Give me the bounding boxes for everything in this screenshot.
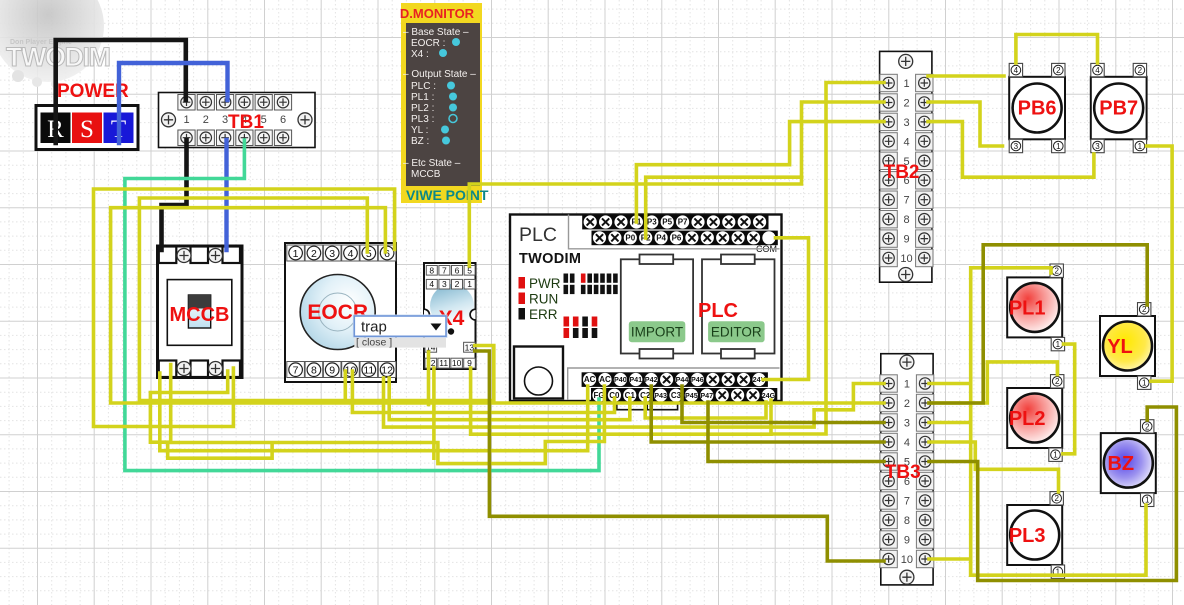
wire EOCR-6-to-TB3-L2 yellow bbox=[111, 208, 884, 403]
svg-text:8: 8 bbox=[311, 365, 317, 377]
svg-text:MCCB: MCCB bbox=[170, 304, 230, 326]
svg-text:PB6: PB6 bbox=[1018, 98, 1057, 120]
svg-text:PL3 :: PL3 : bbox=[411, 114, 434, 125]
wire TB3-R10-to-BZ-1 yellow bbox=[929, 505, 1146, 575]
svg-text:7: 7 bbox=[293, 365, 299, 377]
wire PB6-4-to-PB7-4 yellow bbox=[1016, 35, 1098, 64]
terminal block TB1 bbox=[159, 93, 316, 148]
svg-text:12: 12 bbox=[381, 365, 393, 377]
svg-text:7: 7 bbox=[442, 265, 447, 275]
wire MCCB-to-EOCR-case yellow bbox=[94, 189, 395, 427]
pilot lamp PL2 bbox=[1007, 375, 1064, 462]
dropdown overlay trap bbox=[353, 315, 448, 349]
svg-text:10: 10 bbox=[900, 253, 912, 265]
svg-text:P45: P45 bbox=[685, 391, 698, 400]
svg-text:2: 2 bbox=[1054, 494, 1059, 503]
wire TB2-L3-to-P1 yellow bbox=[636, 122, 884, 222]
svg-text:TB1: TB1 bbox=[228, 112, 264, 133]
svg-text:1: 1 bbox=[1053, 451, 1058, 460]
wire P47-to-TB3-L5 olive bbox=[708, 402, 884, 462]
svg-text:EDITOR: EDITOR bbox=[711, 324, 762, 339]
svg-text:24G: 24G bbox=[762, 391, 776, 400]
svg-text:TB3: TB3 bbox=[885, 462, 921, 483]
wire TB3-R1-to-PL1-2 yellow bbox=[929, 268, 1051, 575]
svg-text:P3: P3 bbox=[647, 218, 657, 227]
svg-text:S: S bbox=[80, 116, 94, 143]
svg-text:4: 4 bbox=[1095, 66, 1100, 75]
wire EOCR-5-to-EOCR-10 yellow bbox=[139, 198, 367, 401]
wire P42-to-TB3-L4 olive bbox=[651, 386, 884, 442]
wire 24G-to-C2 yellow bbox=[645, 398, 766, 418]
wire R-to-TB1-1 black bbox=[56, 40, 186, 143]
PLC editor module bbox=[702, 259, 775, 353]
wire MCCB-b1-to-AC2 yellow bbox=[171, 365, 605, 464]
wire EOCR-12b-to-C1 yellow bbox=[389, 378, 630, 420]
wire PB7-1-to-YL-1 yellow bbox=[1147, 146, 1173, 381]
PLC mounting feet bbox=[617, 402, 678, 410]
svg-text:PWR: PWR bbox=[529, 276, 561, 291]
svg-text:2: 2 bbox=[1054, 267, 1059, 276]
wire X4-13-to-TB3-L10 olive bbox=[475, 351, 884, 561]
svg-text:– Base State –: – Base State – bbox=[403, 27, 469, 38]
svg-text:3: 3 bbox=[1014, 142, 1019, 151]
svg-text:2: 2 bbox=[904, 398, 910, 410]
wire EOCR-12a-to-TB3-L1 yellow bbox=[384, 378, 885, 427]
svg-text:PL3: PL3 bbox=[1009, 525, 1046, 547]
wire TB1-1-to-MCCB black bbox=[162, 140, 187, 250]
svg-text:1: 1 bbox=[293, 248, 299, 260]
wire MCCB-to-AC1 yellow bbox=[160, 373, 588, 451]
svg-text:trap: trap bbox=[361, 319, 387, 336]
svg-text:YL: YL bbox=[1107, 336, 1133, 358]
svg-text:VIWE POINT: VIWE POINT bbox=[406, 187, 489, 203]
svg-text:P41: P41 bbox=[629, 375, 642, 384]
svg-text:4: 4 bbox=[429, 279, 434, 289]
TWODIM watermark logo bbox=[0, 0, 109, 88]
svg-text:BZ :: BZ : bbox=[411, 136, 429, 147]
svg-text:1: 1 bbox=[1056, 142, 1061, 151]
svg-text:4: 4 bbox=[348, 248, 354, 260]
wire X4-9 yellow bbox=[471, 368, 771, 434]
svg-text:9: 9 bbox=[329, 365, 335, 377]
pilot lamp PL1 bbox=[1007, 264, 1064, 351]
wire P2-to-TB2-L2-riser yellow bbox=[646, 177, 802, 238]
svg-text:RUN: RUN bbox=[529, 292, 558, 307]
svg-text:9: 9 bbox=[904, 535, 910, 547]
svg-text:ERR: ERR bbox=[529, 307, 558, 322]
svg-text:D.MONITOR: D.MONITOR bbox=[400, 6, 475, 21]
PLC module bbox=[510, 215, 782, 413]
D.MONITOR panel bbox=[400, 3, 489, 203]
svg-text:P4: P4 bbox=[656, 233, 666, 242]
wire TB2-R1-to-PB6-4 yellow bbox=[928, 74, 1004, 78]
svg-text:PB7: PB7 bbox=[1099, 98, 1138, 120]
terminal block TB3 bbox=[880, 354, 934, 585]
svg-text:2: 2 bbox=[1055, 377, 1060, 386]
svg-text:P47: P47 bbox=[700, 391, 713, 400]
svg-text:2: 2 bbox=[203, 114, 209, 126]
svg-text:PLC :: PLC : bbox=[411, 81, 436, 92]
wire TB1-3-to-MCCB blue bbox=[224, 140, 228, 250]
svg-text:3: 3 bbox=[904, 418, 910, 430]
svg-text:[ close ]: [ close ] bbox=[356, 337, 392, 349]
wire TB3-R5-to-BZ-2 olive bbox=[929, 407, 1176, 581]
svg-text:6: 6 bbox=[455, 265, 460, 275]
svg-text:YL :: YL : bbox=[411, 125, 428, 136]
svg-text:PL1: PL1 bbox=[1009, 297, 1046, 319]
svg-text:– Etc State –: – Etc State – bbox=[403, 158, 461, 169]
svg-text:1: 1 bbox=[1138, 142, 1143, 151]
wire TB2-R3-to-PB7-3 yellow bbox=[928, 122, 1094, 178]
pilot lamp PL3 bbox=[1007, 492, 1064, 579]
svg-text:AC: AC bbox=[584, 375, 596, 384]
power source POWER (R S T) bbox=[36, 81, 138, 150]
svg-text:1: 1 bbox=[903, 78, 909, 90]
svg-text:– Output State –: – Output State – bbox=[403, 69, 476, 80]
svg-text:1: 1 bbox=[1056, 340, 1061, 349]
relay EOCR bbox=[285, 243, 396, 382]
wire TB3-R4-to-PL3-2 yellow bbox=[929, 442, 1059, 492]
terminal block TB2 bbox=[880, 51, 933, 282]
svg-text:6: 6 bbox=[280, 114, 286, 126]
svg-text:PL1 :: PL1 : bbox=[411, 92, 434, 103]
svg-text:8: 8 bbox=[903, 214, 909, 226]
svg-text:C3: C3 bbox=[671, 391, 682, 400]
svg-text:IMPORT: IMPORT bbox=[631, 324, 683, 339]
svg-text:P46: P46 bbox=[691, 375, 704, 384]
wire MCCB-to-AC2 yellow bbox=[150, 371, 272, 458]
push button PB6 bbox=[1009, 63, 1065, 152]
svg-text:BZ: BZ bbox=[1107, 453, 1134, 475]
svg-text:2: 2 bbox=[903, 98, 909, 110]
svg-text:1: 1 bbox=[467, 279, 472, 289]
wire TB2-R2-to-PB6-3 yellow bbox=[928, 102, 1003, 146]
push button PB7 bbox=[1091, 63, 1147, 152]
svg-text:P40: P40 bbox=[614, 375, 627, 384]
svg-text:10: 10 bbox=[452, 358, 462, 368]
svg-text:P43: P43 bbox=[654, 391, 667, 400]
svg-text:P7: P7 bbox=[678, 218, 688, 227]
svg-text:4: 4 bbox=[904, 437, 910, 449]
svg-text:7: 7 bbox=[904, 496, 910, 508]
circuit breaker MCCB bbox=[158, 246, 243, 378]
wire X4-14 stub yellow bbox=[427, 352, 431, 405]
svg-text:13: 13 bbox=[465, 342, 475, 352]
svg-text:X4 :: X4 : bbox=[411, 49, 429, 60]
svg-text:8: 8 bbox=[429, 265, 434, 275]
wire MCCB-to-C0 yellow bbox=[352, 371, 614, 413]
wire COM-to-24V yellow bbox=[763, 238, 809, 380]
svg-text:PL2 :: PL2 : bbox=[411, 103, 434, 114]
svg-text:11: 11 bbox=[439, 358, 448, 368]
svg-text:4: 4 bbox=[1014, 66, 1019, 75]
svg-text:3: 3 bbox=[903, 117, 909, 129]
svg-text:3: 3 bbox=[329, 248, 335, 260]
svg-text:P6: P6 bbox=[672, 233, 682, 242]
wire X4-12b stub yellow bbox=[432, 368, 436, 458]
svg-text:MCCB: MCCB bbox=[411, 169, 441, 180]
svg-text:8: 8 bbox=[904, 515, 910, 527]
svg-text:1: 1 bbox=[183, 114, 189, 126]
svg-text:2: 2 bbox=[1145, 422, 1150, 431]
svg-text:4: 4 bbox=[903, 136, 909, 148]
svg-text:1: 1 bbox=[904, 379, 910, 391]
PLC power square bbox=[514, 347, 563, 399]
wire TB3-R2-to-PL2-2 yellow bbox=[929, 362, 1057, 403]
wire T-to-TB1-3 blue bbox=[119, 63, 228, 143]
svg-text:AC: AC bbox=[599, 375, 611, 384]
wire TB3-R2-to-YL-2 olive bbox=[929, 245, 1147, 403]
svg-text:2: 2 bbox=[311, 248, 317, 260]
svg-text:TB2: TB2 bbox=[884, 162, 920, 183]
svg-text:7: 7 bbox=[903, 195, 909, 207]
wire X4-13-to-pin10-line yellow bbox=[345, 346, 494, 401]
svg-text:P42: P42 bbox=[645, 375, 658, 384]
wire PL1-1-to-PL2-1 yellow bbox=[1063, 344, 1075, 454]
svg-text:TWODIM: TWODIM bbox=[519, 251, 581, 267]
svg-text:9: 9 bbox=[903, 234, 909, 246]
relay X4 bbox=[424, 263, 476, 369]
buzzer BZ bbox=[1101, 420, 1156, 507]
svg-text:P0: P0 bbox=[625, 233, 635, 242]
wire P44-to-TB3-L3 olive bbox=[682, 386, 884, 423]
wire TB1-4-to-PLC-FG green bbox=[125, 140, 599, 471]
wire X4-5-to-TB2-L2 yellow bbox=[469, 102, 884, 266]
svg-text:PL2: PL2 bbox=[1009, 408, 1046, 430]
svg-text:P44: P44 bbox=[676, 375, 689, 384]
svg-text:2: 2 bbox=[1056, 66, 1061, 75]
wire TB2-L1-to-24G yellow bbox=[771, 83, 884, 435]
svg-text:PLC: PLC bbox=[698, 300, 738, 322]
svg-text:P5: P5 bbox=[662, 218, 672, 227]
svg-text:3: 3 bbox=[442, 279, 447, 289]
svg-text:PLC: PLC bbox=[519, 224, 557, 246]
svg-text:10: 10 bbox=[901, 554, 913, 566]
PLC import module bbox=[621, 259, 693, 353]
svg-text:3: 3 bbox=[1095, 142, 1100, 151]
svg-text:EOCR :: EOCR : bbox=[411, 38, 445, 49]
svg-text:1: 1 bbox=[1142, 379, 1147, 388]
svg-text:2: 2 bbox=[1138, 66, 1143, 75]
svg-text:11: 11 bbox=[363, 365, 374, 377]
yellow lamp YL bbox=[1100, 303, 1155, 390]
svg-text:2: 2 bbox=[455, 279, 460, 289]
